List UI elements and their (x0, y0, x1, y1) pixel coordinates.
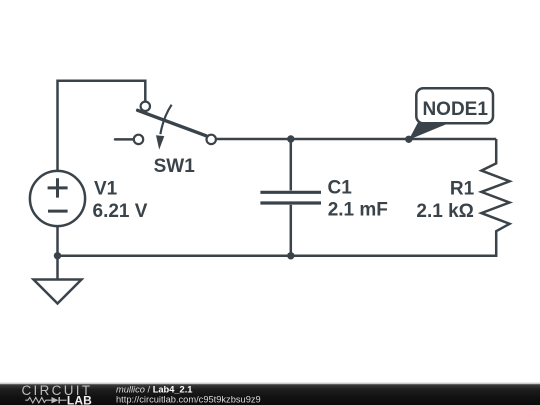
svg-text:6.21 V: 6.21 V (93, 201, 148, 222)
svg-text:V1: V1 (94, 179, 118, 200)
svg-text:R1: R1 (450, 179, 475, 200)
svg-text:SW1: SW1 (154, 156, 196, 177)
svg-text:C1: C1 (328, 177, 353, 198)
svg-text:2.1 mF: 2.1 mF (328, 200, 388, 221)
svg-text:NODE1: NODE1 (422, 99, 488, 120)
svg-text:2.1 kΩ: 2.1 kΩ (416, 201, 474, 222)
svg-text:LAB: LAB (67, 393, 92, 405)
svg-text:http://circuitlab.com/c95t9kzb: http://circuitlab.com/c95t9kzbsu9z9 (116, 394, 261, 404)
svg-text:mullico / Lab4_2.1: mullico / Lab4_2.1 (116, 384, 192, 394)
